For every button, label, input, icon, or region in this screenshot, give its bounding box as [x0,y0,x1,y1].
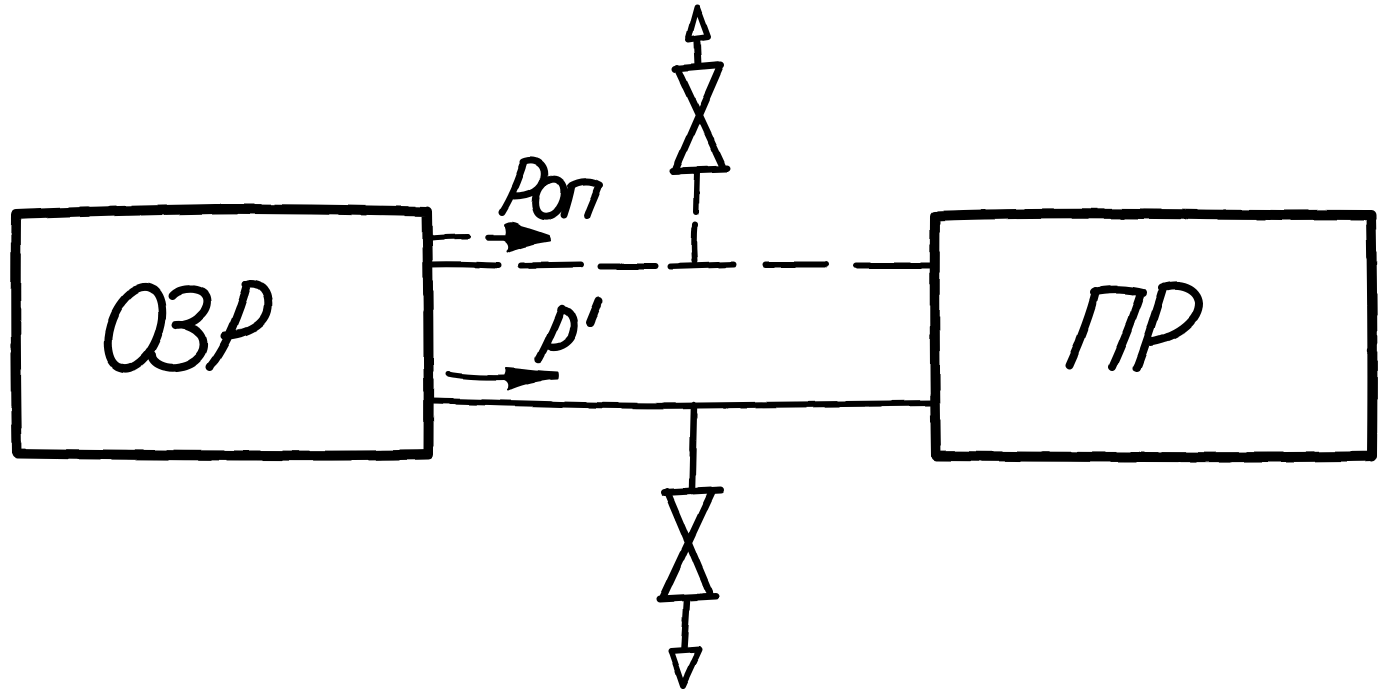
stem below valve V2 [684,600,687,648]
flow arrow р': solid head [503,368,558,390]
block ОЗР (left reservoir box) [16,209,429,456]
label ОЗР letter З [152,289,207,367]
valve V1: cross stroke right-top to left-bottom [676,67,720,168]
dashed pilot line Роп: segment 4 (junction with riser) [671,265,734,267]
label Роп letter Р [502,160,544,212]
block ПР (right receiver box) [935,214,1373,457]
stem above valve V1 [697,43,698,66]
valve V2: cross stroke left-top to right-bottom [667,492,711,596]
label р' prime mark [590,301,599,323]
label ОЗР letter О [97,279,173,376]
flow arrow Роп: solid head [503,223,549,251]
dashed pilot line Роп: segment 1 [431,264,499,265]
label ОЗР letter Р [210,284,268,367]
label р' letter р [539,308,574,359]
label Роп letter о [536,179,565,217]
solid process line р' [431,401,933,406]
dashed pilot line Роп: segment 5 [765,262,826,268]
dashed pilot line Роп: segment 6 [856,263,931,269]
dashed pilot line Роп: segment 2 [521,265,581,266]
valve V1 (top vent valve): bottom bar [673,169,727,171]
valve V1: top bar [675,65,721,69]
riser to top valve: dash 2 [696,172,697,212]
drain arrow down (hollow head) [671,649,700,686]
label Роп letter п [564,182,600,216]
flow arrow Роп: second dash [488,235,504,241]
valve V1: cross stroke left-top to right-bottom [677,68,723,167]
riser to bottom valve [692,405,694,490]
vent arrow up (hollow head) [688,7,708,40]
valve V2 (bottom drain valve): top bar [664,490,721,493]
valve V2: bottom bar [660,596,716,599]
dashed pilot line Роп: segment 3 [600,264,656,270]
valve V2: cross stroke right-top to left-bottom [663,492,712,597]
flow arrow Роп: tail segment [432,237,468,239]
label ПР letter Р [1137,285,1199,368]
flow arrow р': tail [448,374,504,378]
label ПР letter П [1069,290,1143,367]
riser to top valve: dash 1 [691,224,698,261]
